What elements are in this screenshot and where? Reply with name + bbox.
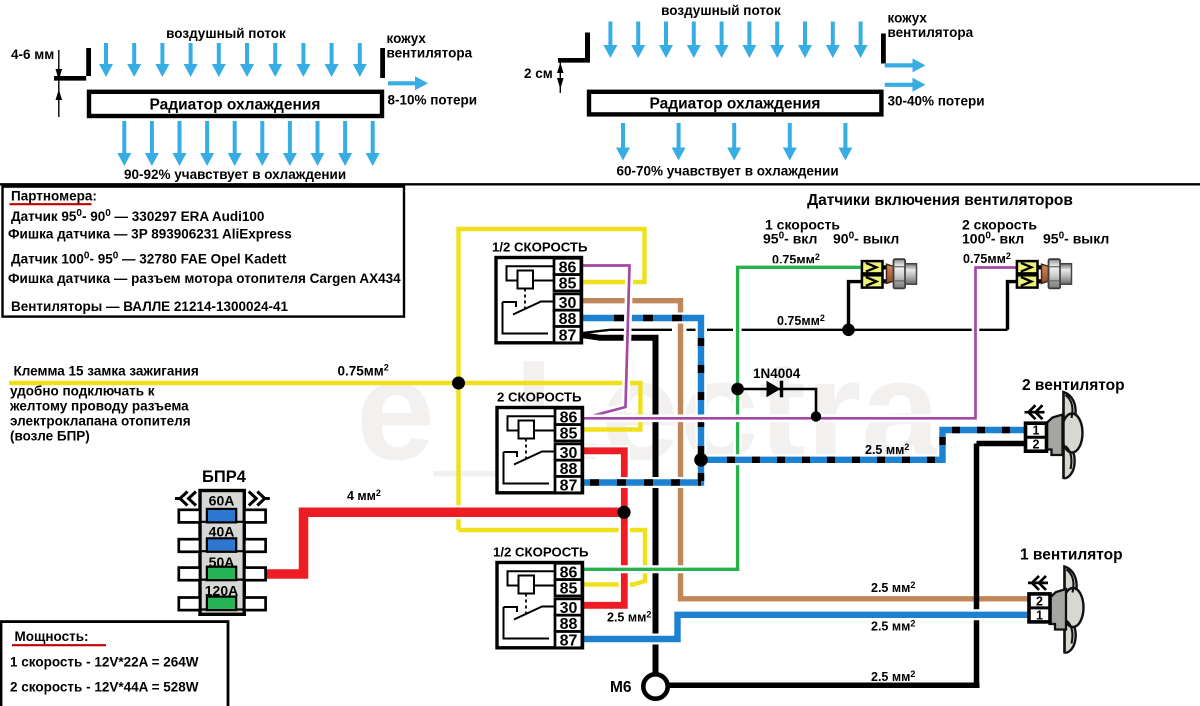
wire red power from БПР4 50A fuse bbox=[263, 451, 627, 606]
svg-text:кожух: кожух bbox=[888, 11, 928, 26]
svg-text:вентилятора: вентилятора bbox=[888, 25, 974, 40]
junction red at 624,512 bbox=[617, 506, 630, 519]
wire purple relay1 pin86 / relay2 pin86 / sensor 2 bbox=[578, 266, 1017, 419]
svg-text:2 вентилятор: 2 вентилятор bbox=[1022, 377, 1125, 394]
temperature sensor 2 (100-95) with connector bbox=[1017, 259, 1072, 288]
svg-text:1000- вкл: 1000- вкл bbox=[962, 231, 1024, 247]
wire thick black ground: M6 to fan 2 bbox=[668, 444, 1027, 686]
fuse 50A with tabs bbox=[179, 568, 200, 581]
junction yellow at Клемма 15 bbox=[452, 377, 465, 390]
airflow arrows bottom-right row bbox=[616, 123, 852, 161]
radiator box (left diagram) bbox=[89, 92, 382, 116]
ground M6 terminal bbox=[610, 674, 668, 698]
loss arrows right (right diagram) bbox=[885, 63, 915, 67]
svg-text:М6: М6 bbox=[610, 679, 632, 696]
svg-text:Фишка датчика — 3P 893906231: Фишка датчика — 3P 893906231 AliExpress bbox=[8, 227, 292, 242]
svg-text:Партномера:: Партномера: bbox=[11, 189, 97, 204]
svg-text:60A: 60A bbox=[209, 492, 235, 508]
fan shroud right bar (left diagram) bbox=[380, 48, 385, 78]
wire thin black sensor common net bbox=[578, 282, 1017, 334]
svg-text:электроклапана отопителя: электроклапана отопителя bbox=[10, 414, 191, 429]
svg-text:БПР4: БПР4 bbox=[202, 468, 247, 486]
svg-text:50A: 50A bbox=[209, 554, 235, 570]
svg-text:Датчик 1000- 950 — 32780 FAE: Датчик 1000- 950 — 32780 FAE Opel Kadett bbox=[11, 251, 287, 267]
svg-text:4-6 мм: 4-6 мм bbox=[11, 47, 54, 62]
svg-text:2 скорость - 12V*44A = 528W: 2 скорость - 12V*44A = 528W bbox=[10, 680, 199, 695]
svg-text:4 мм2: 4 мм2 bbox=[347, 488, 381, 503]
svg-text:желтому проводу разъема: желтому проводу разъема bbox=[9, 399, 189, 414]
svg-text:87: 87 bbox=[560, 478, 578, 495]
svg-text:2: 2 bbox=[1036, 594, 1043, 608]
fan shroud right bar (right diagram) bbox=[881, 34, 886, 64]
svg-text:1/2 СКОРОСТЬ: 1/2 СКОРОСТЬ bbox=[493, 545, 589, 560]
svg-text:2.5 мм2: 2.5 мм2 bbox=[865, 442, 909, 457]
radiator box (right diagram) bbox=[589, 92, 881, 115]
wire blue relay3 pin87 to fan 1 bbox=[578, 615, 1031, 639]
svg-text:Клемма 15 замка зажигания: Клемма 15 замка зажигания bbox=[14, 364, 199, 379]
svg-text:1: 1 bbox=[1033, 424, 1040, 438]
svg-text:40A: 40A bbox=[209, 524, 235, 540]
airflow arrows top-right row bbox=[603, 22, 867, 59]
junction sensor1 black wire bbox=[842, 324, 855, 337]
svg-text:воздушный поток: воздушный поток bbox=[661, 3, 781, 18]
svg-text:2.5 мм2: 2.5 мм2 bbox=[607, 610, 651, 625]
svg-text:2: 2 bbox=[1033, 438, 1040, 452]
wire brown relay1 pin30 to fan 1 bbox=[578, 301, 1031, 599]
svg-text:(возле БПР): (возле БПР) bbox=[10, 429, 90, 444]
dimension line with arrows bbox=[56, 50, 63, 117]
svg-text:900- выкл: 900- выкл bbox=[833, 231, 899, 247]
svg-text:вентилятора: вентилятора bbox=[387, 46, 473, 61]
svg-text:1/2 СКОРОСТЬ: 1/2 СКОРОСТЬ bbox=[492, 240, 588, 255]
wire green sensor 1 net bbox=[578, 267, 862, 569]
svg-text:1 вентилятор: 1 вентилятор bbox=[1020, 547, 1123, 564]
temperature sensor 1 (95-90) with connector bbox=[862, 259, 917, 288]
svg-text:0.75мм2: 0.75мм2 bbox=[777, 313, 825, 328]
svg-text:85: 85 bbox=[560, 426, 578, 443]
svg-text:950- вкл: 950- вкл bbox=[763, 231, 817, 247]
svg-text:120A: 120A bbox=[205, 583, 238, 599]
svg-text:1 скорость - 12V*22A = 264W: 1 скорость - 12V*22A = 264W bbox=[10, 655, 199, 670]
wire yellow ignition net Клемма 15 bbox=[9, 227, 645, 585]
svg-text:2 СКОРОСТЬ: 2 СКОРОСТЬ bbox=[497, 390, 582, 405]
svg-text:удобно подключать к: удобно подключать к bbox=[10, 384, 155, 399]
svg-text:87: 87 bbox=[559, 328, 577, 345]
fuse 40A with tabs bbox=[179, 539, 200, 552]
sensor 2 labels bbox=[962, 217, 1109, 267]
relay K3 (1/2 скорость низ) bbox=[493, 545, 589, 650]
svg-text:90-92% учавствует в охлаждении: 90-92% учавствует в охлаждении bbox=[124, 167, 346, 182]
loss arrow right (left diagram) bbox=[388, 81, 417, 85]
svg-text:Датчик 950- 900 — 330297 ERA: Датчик 950- 900 — 330297 ERA Audi100 bbox=[11, 208, 264, 224]
fan shroud left bar (left diagram) bbox=[54, 48, 91, 81]
svg-text:Датчики включения вентиляторов: Датчики включения вентиляторов bbox=[807, 192, 1073, 209]
svg-text:60-70% учавствует в охлаждении: 60-70% учавствует в охлаждении bbox=[617, 164, 839, 179]
svg-text:2.5 мм2: 2.5 мм2 bbox=[871, 669, 915, 684]
note text below ignition wire bbox=[9, 384, 191, 444]
power box Мощность bbox=[1, 622, 228, 706]
junction diode anode on green bbox=[731, 383, 744, 396]
БПР4 right chevron bbox=[249, 492, 270, 506]
svg-text:Фишка датчика — разъем мотора: Фишка датчика — разъем мотора отопителя … bbox=[8, 271, 401, 286]
fuse box БПР4 bbox=[175, 468, 270, 614]
relay K1 (1/2 скорость верх) bbox=[492, 240, 588, 345]
svg-text:воздушный поток: воздушный поток bbox=[166, 26, 286, 41]
diode 1N4004 with leads bbox=[738, 381, 816, 417]
sensor 1 labels bbox=[763, 217, 899, 268]
svg-text:2 см: 2 см bbox=[524, 66, 553, 81]
fan 1 (нижний) bbox=[1020, 547, 1123, 653]
dimension line with arrows (right diagram) bbox=[557, 58, 564, 93]
БПР4 left chevron bbox=[175, 492, 196, 506]
svg-text:Радиатор охлаждения: Радиатор охлаждения bbox=[150, 97, 321, 114]
svg-text:85: 85 bbox=[560, 581, 578, 598]
junction blue at 701,460 bbox=[694, 453, 708, 467]
svg-text:0.75мм2: 0.75мм2 bbox=[338, 363, 389, 379]
svg-text:Вентиляторы — ВАЛЛЕ 21214-1300: Вентиляторы — ВАЛЛЕ 21214-1300024-41 bbox=[11, 299, 289, 314]
svg-text:e_Lectra: e_Lectra bbox=[356, 331, 941, 490]
fan shroud left bar (right diagram) bbox=[558, 33, 590, 63]
fuse 120A with tabs bbox=[179, 598, 200, 611]
wire thick black relay1 pin87 to M6 bbox=[578, 335, 659, 675]
svg-text:кожух: кожух bbox=[387, 31, 427, 46]
svg-text:1: 1 bbox=[1036, 608, 1043, 622]
svg-text:2.5 мм2: 2.5 мм2 bbox=[871, 580, 915, 595]
svg-text:Радиатор охлаждения: Радиатор охлаждения bbox=[650, 96, 821, 113]
junction diode cathode on purple bbox=[811, 411, 821, 421]
wire blue-black relay1 pin88 / relay2 pin87 to fan 2 bbox=[578, 318, 1027, 483]
svg-text:1N4004: 1N4004 bbox=[753, 366, 801, 381]
airflow arrows bottom-left row bbox=[117, 121, 379, 166]
fuse 60A with tabs bbox=[179, 510, 200, 523]
svg-text:8-10% потери: 8-10% потери bbox=[388, 93, 478, 108]
svg-text:Мощность:: Мощность: bbox=[15, 629, 89, 644]
part numbers box Партномера bbox=[3, 187, 405, 317]
svg-text:85: 85 bbox=[559, 276, 577, 293]
svg-text:950- выкл: 950- выкл bbox=[1043, 231, 1109, 247]
svg-text:30-40% потери: 30-40% потери bbox=[888, 94, 985, 109]
svg-text:87: 87 bbox=[560, 633, 578, 650]
airflow arrows top-left row bbox=[99, 43, 367, 77]
svg-text:2.5 мм2: 2.5 мм2 bbox=[871, 619, 915, 634]
fan 2 (верхний) bbox=[1022, 377, 1125, 478]
relay K2 (2 скорость) bbox=[497, 390, 583, 495]
separator line bbox=[0, 183, 1200, 185]
